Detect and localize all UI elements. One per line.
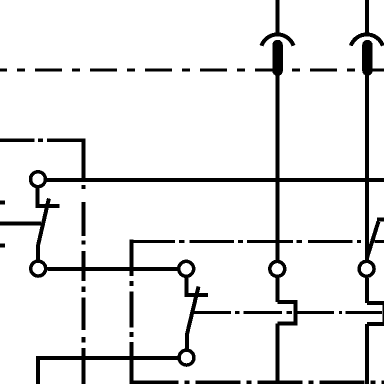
- linkage dash-dot y312.5 left: [191, 311, 292, 314]
- linkage dash-dot horizontal y241.5: [132, 240, 384, 243]
- terminal circle: [179, 350, 194, 365]
- wire: [276, 0, 280, 34]
- stub wire: [0, 244, 5, 248]
- wire: [365, 76, 369, 261]
- bridge: [278, 302, 296, 323]
- linkage dash-dot vertical x83: [81, 185, 85, 384]
- wire: [365, 0, 369, 34]
- contact S3: [359, 220, 384, 277]
- wire: [365, 278, 369, 303]
- linkage dash-dot y312.5 right: [296, 311, 382, 314]
- contact hook wire: [377, 218, 384, 222]
- body of fuse F2: [362, 40, 372, 76]
- fixed contact seat: [186, 278, 208, 295]
- body of fuse F1: [272, 40, 283, 76]
- wire: [365, 324, 369, 384]
- boundary dash-dot line top: [0, 68, 384, 71]
- bridging contact B2: [367, 278, 384, 384]
- terminal circle C3: [270, 261, 285, 276]
- terminal circle: [31, 172, 46, 187]
- fixed contact seat: [38, 187, 60, 206]
- arc of fuse F2: [351, 34, 383, 45]
- arc of fuse F1: [262, 34, 294, 45]
- moving contact: [367, 222, 379, 259]
- contact S2 (changeover): [179, 261, 208, 365]
- bridge: [367, 303, 384, 324]
- contact S1 (changeover): [0, 172, 60, 276]
- wire: [276, 278, 280, 302]
- wire: [276, 76, 280, 261]
- terminal circle: [179, 261, 194, 276]
- bridging contact B1: [278, 278, 296, 384]
- terminal circle: [359, 261, 374, 276]
- fuse F2: [351, 0, 383, 260]
- linkage dash-dot y382.3 bottom: [134, 381, 384, 384]
- linkage dash-dot corner line: [0, 139, 83, 180]
- moving contact: [187, 287, 199, 349]
- wire y268.7: [47, 267, 177, 271]
- stub wire: [0, 200, 5, 204]
- NO fixed wire: [0, 221, 41, 225]
- wire bus y179.5: [47, 178, 384, 182]
- wire bottom left corner: [38, 358, 178, 384]
- fuse F1: [262, 0, 294, 260]
- wire: [276, 323, 280, 384]
- terminal circle: [31, 261, 46, 276]
- linkage dash-dot vertical x131.5: [130, 240, 134, 384]
- moving contact: [38, 199, 49, 261]
